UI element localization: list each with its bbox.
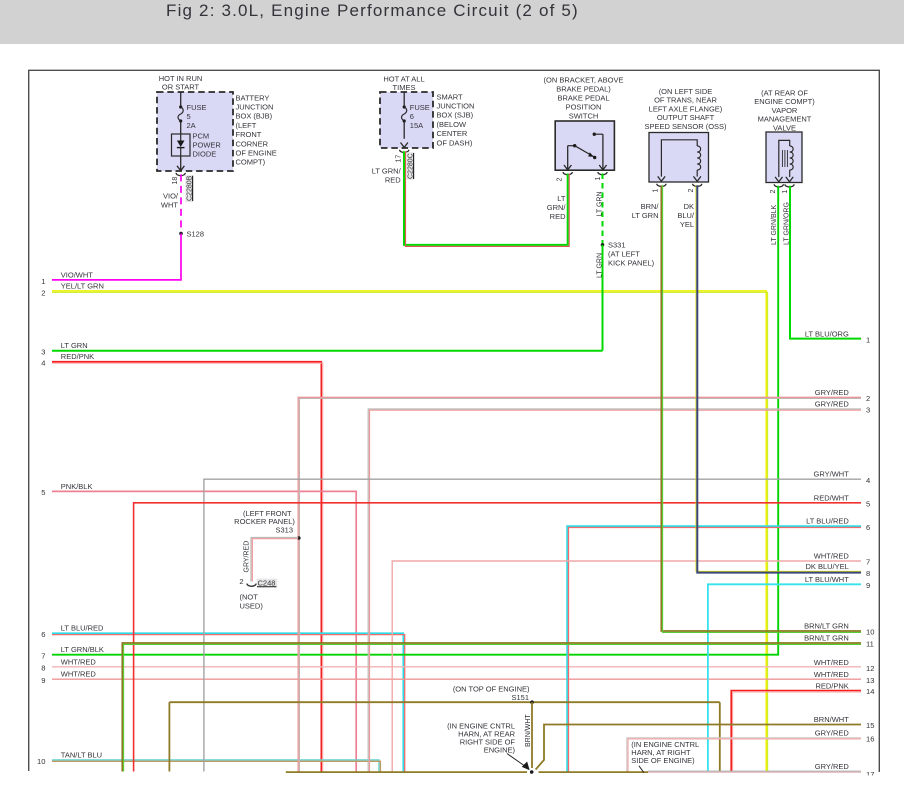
connector half-circle VMV pin 2 [774, 184, 783, 187]
svg-text:2: 2 [239, 577, 243, 586]
svg-text:SMART: SMART [437, 92, 464, 101]
svg-text:2: 2 [770, 190, 777, 194]
valve: vapor management valve [766, 132, 802, 183]
svg-text:MANAGEMENT: MANAGEMENT [758, 115, 812, 124]
svg-text:LT BLU/ORG: LT BLU/ORG [805, 329, 849, 338]
wire VIO/WHT dashed BJB pin 18 to S128 [180, 174, 182, 233]
svg-text:LEFT AXLE FLANGE): LEFT AXLE FLANGE) [649, 104, 723, 113]
svg-text:YEL/LT GRN: YEL/LT GRN [61, 281, 104, 290]
node S151 [530, 700, 534, 704]
svg-text:VAPOR: VAPOR [772, 106, 798, 115]
connector C2280C half-circle [400, 150, 409, 153]
svg-text:(LEFT: (LEFT [236, 121, 257, 130]
connector half-circle OSS pin 1 [657, 184, 666, 187]
svg-text:8: 8 [866, 569, 870, 578]
VMV solenoid symbol [779, 140, 790, 177]
wire LT BLU/RED row 6 right [567, 526, 861, 771]
svg-text:LT GRN/BLK: LT GRN/BLK [61, 645, 104, 654]
sensor: output shaft speed sensor (OSS) [649, 133, 709, 183]
wire LT GRN/BLK row 7 left to VMV pin 2 [52, 186, 778, 655]
arrowhead at SJB pin 17 [401, 143, 408, 148]
svg-text:(AT LEFT: (AT LEFT [608, 250, 640, 259]
connector half-circle switch pin 2 [563, 172, 572, 175]
svg-text:BRAKE PEDAL): BRAKE PEDAL) [556, 85, 611, 94]
svg-text:DIODE: DIODE [193, 150, 217, 159]
wire BRN/LT GRN OSS pin 1 to row 10 right [661, 185, 861, 631]
svg-text:BRN/LT GRN: BRN/LT GRN [804, 634, 849, 643]
svg-text:PCM: PCM [193, 132, 210, 141]
svg-text:SPEED SENSOR (OSS): SPEED SENSOR (OSS) [644, 122, 727, 131]
svg-text:4: 4 [41, 359, 45, 368]
svg-text:RED/PNK: RED/PNK [815, 681, 848, 690]
svg-text:6: 6 [410, 112, 414, 121]
svg-text:BATTERY: BATTERY [236, 93, 270, 102]
svg-text:GRY/RED: GRY/RED [815, 388, 850, 397]
svg-text:TIMES: TIMES [393, 83, 416, 92]
svg-text:(AT REAR OF: (AT REAR OF [761, 88, 808, 97]
svg-text:CENTER: CENTER [437, 129, 468, 138]
wire RED/PNK row 14 right [731, 691, 861, 772]
svg-text:7: 7 [41, 652, 45, 661]
svg-text:OR START: OR START [162, 83, 200, 92]
svg-text:BRAKE PEDAL: BRAKE PEDAL [557, 94, 609, 103]
wire diode to BJB pin [180, 156, 182, 170]
wire BRN/LT GRN row 11 [122, 643, 861, 772]
fuse box: Battery Junction Box (BJB) [157, 92, 233, 171]
wire BRN/WHT S151 left drop [168, 702, 170, 771]
wire RED/PNK row 4 [52, 362, 321, 772]
svg-text:OF DASH): OF DASH) [437, 138, 473, 147]
wire RED/WHT row 5 right [134, 503, 861, 772]
svg-text:GRN/: GRN/ [547, 203, 567, 212]
svg-text:4: 4 [866, 476, 870, 485]
svg-text:LT GRN: LT GRN [632, 211, 659, 220]
scan cut mask [0, 775, 904, 797]
svg-text:(NOT: (NOT [240, 593, 259, 602]
svg-text:Fig 2: 3.0L, Engine Performanc: Fig 2: 3.0L, Engine Performance Circuit … [166, 1, 579, 20]
wire LT GRN S331 to row 3 [602, 245, 604, 351]
wire BRN/WHT row 15 right [536, 725, 861, 770]
wire BRN/WHT S151 horizontal [169, 701, 719, 703]
annotation pointer arrow [507, 754, 526, 767]
wire BRN/WHT bottom bus [286, 771, 527, 773]
svg-text:BRN/WHT: BRN/WHT [525, 714, 532, 747]
svg-text:WHT/RED: WHT/RED [814, 552, 850, 561]
svg-text:10: 10 [866, 628, 874, 637]
svg-text:FUSE: FUSE [410, 103, 430, 112]
arrowhead OSS pin 2 [694, 176, 701, 181]
svg-text:GRY/RED: GRY/RED [815, 762, 850, 771]
svg-text:SIDE OF ENGINE): SIDE OF ENGINE) [631, 756, 695, 765]
svg-text:5: 5 [41, 488, 45, 497]
wire WHT/RED row 7 right [392, 561, 861, 772]
svg-text:RED/WHT: RED/WHT [814, 493, 849, 502]
svg-text:WHT/RED: WHT/RED [814, 658, 850, 667]
wire LT GRN/RED SJB pin 17 to switch pin 2 [404, 151, 568, 245]
switch contacts symbol [568, 145, 575, 147]
switch: brake pedal position switch [555, 121, 614, 170]
svg-text:WHT: WHT [161, 201, 178, 210]
header bar [0, 0, 904, 44]
svg-text:2A: 2A [187, 121, 196, 130]
svg-text:9: 9 [866, 581, 870, 590]
wire GRY/RED row 3 right [368, 409, 861, 772]
svg-text:DK BLU/YEL: DK BLU/YEL [805, 562, 848, 571]
wire GRY/WHT row 4 right [204, 479, 861, 771]
arrowhead at BJB pin 18 [177, 166, 184, 171]
svg-text:TAN/LT BLU: TAN/LT BLU [61, 750, 102, 759]
svg-text:7: 7 [866, 558, 870, 567]
svg-text:6: 6 [866, 523, 870, 532]
svg-text:LT: LT [557, 194, 566, 203]
svg-text:6: 6 [41, 630, 45, 639]
wire LT GRN row 3 [52, 350, 603, 352]
svg-text:BRN/WHT: BRN/WHT [814, 715, 849, 724]
svg-text:LT GRN: LT GRN [61, 341, 88, 350]
wire BRN/WHT S151 down [531, 702, 533, 768]
svg-text:1: 1 [41, 277, 45, 286]
wire WHT/RED row 9 / row 13 [52, 678, 861, 680]
svg-text:POSITION: POSITION [566, 103, 602, 112]
connector C2280B half-circle [176, 173, 185, 176]
svg-text:ENGINE): ENGINE) [484, 746, 516, 755]
svg-text:S128: S128 [187, 229, 205, 238]
svg-text:S151: S151 [511, 693, 529, 702]
wire LT BLU/WHT row 9 right [708, 584, 861, 771]
PCM power diode D1 [172, 134, 191, 156]
svg-text:GRY/RED: GRY/RED [244, 541, 251, 573]
svg-text:OF ENGINE: OF ENGINE [236, 149, 277, 158]
svg-text:FRONT: FRONT [236, 130, 262, 139]
svg-text:WHT/RED: WHT/RED [61, 657, 97, 666]
svg-text:WHT/RED: WHT/RED [814, 670, 850, 679]
svg-text:LT BLU/RED: LT BLU/RED [806, 517, 849, 526]
connector half-circle switch pin 1 [598, 172, 607, 175]
svg-text:10: 10 [37, 757, 45, 766]
svg-text:JUNCTION: JUNCTION [437, 102, 475, 111]
svg-text:11: 11 [866, 640, 874, 649]
svg-text:8: 8 [41, 664, 45, 673]
svg-text:JUNCTION: JUNCTION [236, 103, 274, 112]
svg-text:2: 2 [688, 189, 695, 193]
svg-text:3: 3 [866, 406, 870, 415]
arrowhead VMV pin 1 [786, 177, 793, 182]
svg-text:5: 5 [187, 112, 191, 121]
svg-text:3: 3 [41, 348, 45, 357]
svg-text:PNK/BLK: PNK/BLK [61, 482, 93, 491]
svg-text:13: 13 [866, 676, 874, 685]
wire GRY/RED row 2 right through S313 [298, 397, 861, 771]
svg-text:KICK PANEL): KICK PANEL) [608, 259, 655, 268]
svg-text:USED): USED) [240, 602, 264, 611]
fuse F6 symbol [403, 92, 405, 107]
svg-text:(BELOW: (BELOW [437, 120, 468, 129]
svg-text:C248: C248 [258, 579, 276, 588]
svg-text:17: 17 [395, 155, 402, 163]
svg-text:RED: RED [550, 212, 566, 221]
svg-text:14: 14 [866, 687, 874, 696]
wire LT GRN/ORG VMV pin 1 to row 1 right (LT BLU/ORG) [790, 186, 861, 339]
svg-text:LT GRN/BLK: LT GRN/BLK [771, 204, 778, 245]
svg-text:5: 5 [866, 500, 870, 509]
svg-text:1: 1 [653, 189, 660, 193]
svg-text:12: 12 [866, 664, 874, 673]
svg-text:RED/PNK: RED/PNK [61, 352, 94, 361]
svg-text:OUTPUT SHAFT: OUTPUT SHAFT [657, 113, 715, 122]
svg-text:GRY/RED: GRY/RED [815, 728, 850, 737]
svg-text:COMPT): COMPT) [236, 158, 266, 167]
svg-text:VALVE: VALVE [773, 124, 796, 133]
svg-text:POWER: POWER [193, 141, 222, 150]
svg-text:BOX (SJB): BOX (SJB) [437, 111, 474, 120]
svg-text:BLU/: BLU/ [677, 211, 695, 220]
annotation pointer line [639, 766, 644, 773]
wire LT GRN dashed switch pin 1 to S331 [602, 174, 604, 245]
svg-text:BRN/LT GRN: BRN/LT GRN [804, 622, 849, 631]
svg-text:ENGINE COMPT): ENGINE COMPT) [754, 97, 815, 106]
wire PNK/BLK row 5 [52, 491, 356, 771]
wire LT BLU/RED row 6 left [52, 633, 403, 772]
connector half-circle VMV pin 1 [785, 184, 794, 187]
wire WHT/RED row 8 / row 12 [52, 666, 861, 668]
svg-text:1: 1 [595, 177, 602, 181]
svg-text:FUSE: FUSE [187, 103, 207, 112]
svg-text:2: 2 [41, 288, 45, 297]
svg-text:CORNER: CORNER [236, 139, 269, 148]
fuse F5 symbol [180, 92, 182, 107]
wire DK BLU/YEL OSS pin 2 to row 8 right [696, 185, 861, 571]
svg-text:DK: DK [684, 202, 694, 211]
svg-text:RED: RED [385, 176, 401, 185]
svg-text:15: 15 [866, 721, 874, 730]
svg-text:18: 18 [172, 177, 179, 185]
svg-text:9: 9 [41, 676, 45, 685]
wire GRY/RED row 16 right [627, 738, 861, 773]
arrowhead switch pin 2 [564, 165, 571, 170]
wire TAN/LT BLU row 10 left [52, 760, 379, 772]
svg-text:S331: S331 [608, 241, 626, 250]
node S331 [601, 243, 605, 247]
svg-text:1: 1 [782, 190, 789, 194]
node S151 bottom junction [530, 770, 534, 774]
wire YEL/LT GRN row 2 [52, 291, 766, 772]
svg-text:OF TRANS, NEAR: OF TRANS, NEAR [654, 96, 717, 105]
wire BRN/WHT S151 drop to row 15 [719, 702, 721, 771]
svg-text:LT BLU/RED: LT BLU/RED [61, 624, 104, 633]
svg-text:WHT/RED: WHT/RED [61, 670, 97, 679]
svg-text:15A: 15A [410, 121, 423, 130]
connector half-circle OSS pin 2 [693, 184, 702, 187]
svg-text:1: 1 [866, 335, 870, 344]
wire GRY/RED stub S313 to C248 [251, 538, 298, 582]
svg-text:LT BLU/WHT: LT BLU/WHT [805, 575, 849, 584]
svg-text:BOX (BJB): BOX (BJB) [236, 112, 273, 121]
svg-text:(ON BRACKET, ABOVE: (ON BRACKET, ABOVE [543, 76, 623, 85]
svg-text:(ON LEFT SIDE: (ON LEFT SIDE [659, 87, 713, 96]
svg-text:16: 16 [866, 735, 874, 744]
arrowhead VMV pin 2 [775, 177, 782, 182]
node S128 [179, 232, 183, 236]
svg-text:GRY/RED: GRY/RED [815, 400, 850, 409]
svg-text:SWITCH: SWITCH [569, 112, 599, 121]
svg-text:S313: S313 [275, 525, 293, 534]
svg-text:2: 2 [866, 394, 870, 403]
connector C248 half-circle [247, 584, 256, 587]
node S313 [297, 536, 301, 540]
arrowhead switch pin 1 [599, 165, 606, 170]
svg-text:BRN/: BRN/ [641, 202, 660, 211]
svg-text:LT GRN/: LT GRN/ [372, 167, 402, 176]
arrowhead OSS pin 1 [658, 176, 665, 181]
svg-text:HOT AT ALL: HOT AT ALL [383, 75, 424, 84]
fuse box: Smart Junction Box (SJB) [380, 92, 433, 148]
svg-text:VIO/: VIO/ [163, 192, 179, 201]
svg-text:YEL: YEL [680, 220, 694, 229]
wire GRY/RED row 17 right [648, 770, 861, 772]
svg-text:HOT IN RUN: HOT IN RUN [159, 74, 203, 83]
svg-text:2: 2 [557, 178, 564, 182]
OSS coil symbol [661, 140, 697, 177]
svg-text:GRY/WHT: GRY/WHT [814, 470, 850, 479]
svg-text:VIO/WHT: VIO/WHT [61, 270, 93, 279]
wire VIO/WHT S128 to row 1 [52, 234, 181, 280]
